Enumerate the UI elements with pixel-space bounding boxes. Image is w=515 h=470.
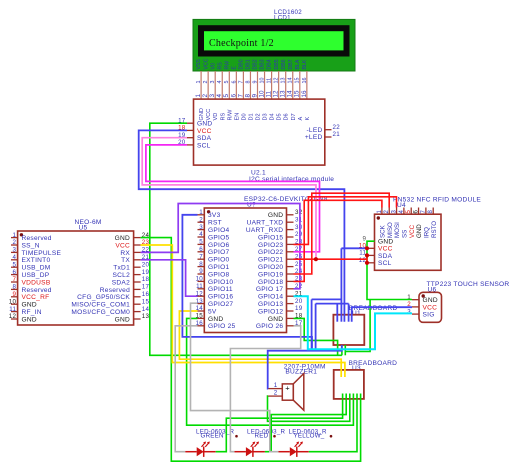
- svg-text:GND: GND: [22, 302, 37, 309]
- svg-text:DB1: DB1: [246, 59, 252, 69]
- svg-text:SS: SS: [401, 230, 408, 238]
- svg-text:VCC_RF: VCC_RF: [22, 294, 50, 301]
- svg-text:8: 8: [12, 284, 16, 291]
- svg-text:EXTINT0: EXTINT0: [22, 257, 51, 264]
- svg-text:GPIO11: GPIO11: [208, 286, 233, 293]
- svg-text:DB5: DB5: [274, 59, 280, 69]
- svg-text:GPIO13: GPIO13: [258, 301, 283, 308]
- svg-text:GPIO8: GPIO8: [208, 271, 229, 278]
- svg-text:14: 14: [287, 90, 294, 98]
- svg-text:SCL: SCL: [197, 142, 211, 149]
- svg-text:5: 5: [199, 239, 203, 246]
- svg-text:8: 8: [245, 81, 251, 84]
- svg-text:4: 4: [217, 81, 223, 84]
- svg-text:11: 11: [266, 90, 273, 97]
- svg-text:1: 1: [195, 94, 202, 98]
- svg-text:GND: GND: [197, 121, 212, 128]
- svg-text:5: 5: [223, 94, 230, 98]
- svg-text:6: 6: [230, 94, 237, 98]
- svg-text:7: 7: [199, 253, 203, 260]
- svg-text:DB7: DB7: [288, 59, 294, 69]
- svg-text:D0: D0: [241, 113, 247, 120]
- svg-text:7: 7: [12, 276, 16, 283]
- svg-text:CFG_GP50/SCK: CFG_GP50/SCK: [77, 294, 130, 301]
- svg-text:13: 13: [280, 90, 287, 98]
- svg-text:GPIO12: GPIO12: [258, 308, 283, 315]
- svg-text:DB2: DB2: [253, 59, 259, 69]
- svg-text:20: 20: [142, 261, 150, 268]
- svg-text:MISO/CFG_COM1: MISO/CFG_COM1: [71, 302, 130, 309]
- svg-text:GPIO 26: GPIO 26: [256, 323, 283, 330]
- svg-text:30: 30: [295, 224, 303, 231]
- svg-text:GND: GND: [268, 212, 283, 219]
- svg-text:18: 18: [142, 276, 150, 283]
- svg-text:15: 15: [142, 298, 150, 305]
- svg-text:10: 10: [9, 298, 17, 305]
- svg-text:VDDUSB: VDDUSB: [22, 279, 51, 286]
- svg-text:GPIO19: GPIO19: [258, 271, 283, 278]
- svg-text:1: 1: [12, 232, 16, 239]
- svg-text:GPIO7: GPIO7: [208, 249, 229, 256]
- svg-text:9: 9: [199, 268, 203, 275]
- svg-text:1: 1: [196, 81, 202, 84]
- svg-text:RSTO: RSTO: [431, 221, 438, 238]
- svg-text:GND: GND: [378, 239, 393, 246]
- svg-text:TIMEPULSE: TIMEPULSE: [22, 250, 62, 257]
- svg-text:12: 12: [273, 90, 280, 98]
- svg-text:TxD1: TxD1: [113, 265, 130, 272]
- svg-text:6: 6: [199, 246, 203, 253]
- svg-text:GPIO23: GPIO23: [258, 242, 283, 249]
- svg-text:USB_DP: USB_DP: [22, 272, 50, 279]
- svg-text:GPIO22: GPIO22: [258, 249, 283, 256]
- svg-text:4: 4: [199, 231, 203, 238]
- svg-text:Reserved: Reserved: [22, 235, 52, 242]
- svg-text:19: 19: [295, 305, 303, 312]
- svg-text:20: 20: [295, 298, 303, 305]
- svg-text:U4: U4: [397, 202, 406, 209]
- svg-text:D4: D4: [270, 113, 276, 120]
- svg-text:+: +: [285, 383, 290, 392]
- svg-text:GPIO 17: GPIO 17: [256, 286, 283, 293]
- svg-text:Checkpoint 1/2: Checkpoint 1/2: [209, 38, 274, 49]
- svg-text:VCC: VCC: [206, 109, 212, 121]
- svg-text:SS_N: SS_N: [22, 242, 40, 249]
- svg-text:RS: RS: [217, 62, 223, 70]
- svg-text:17: 17: [142, 284, 150, 291]
- svg-text:31: 31: [295, 216, 303, 223]
- svg-text:19: 19: [142, 269, 150, 276]
- svg-text:GND: GND: [423, 297, 438, 304]
- svg-text:IRQ: IRQ: [423, 227, 430, 238]
- svg-text:5: 5: [12, 261, 16, 268]
- svg-text:D3: D3: [263, 113, 269, 120]
- svg-text:GPIO15: GPIO15: [258, 234, 283, 241]
- svg-text:RW: RW: [224, 61, 230, 70]
- svg-text:9: 9: [12, 291, 16, 298]
- svg-text:U1: U1: [352, 310, 361, 317]
- svg-text:12: 12: [9, 313, 17, 320]
- svg-text:D1: D1: [248, 113, 254, 120]
- svg-text:GPIO21: GPIO21: [258, 257, 283, 264]
- svg-text:MISO: MISO: [387, 222, 394, 238]
- svg-text:DB6: DB6: [281, 59, 287, 69]
- svg-text:5V: 5V: [208, 308, 217, 315]
- svg-text:10: 10: [258, 90, 265, 98]
- svg-text:GPIO4: GPIO4: [208, 227, 229, 234]
- svg-text:K: K: [305, 117, 311, 121]
- svg-text:VCC: VCC: [378, 246, 393, 253]
- svg-text:D7: D7: [291, 113, 297, 120]
- svg-text:4: 4: [216, 94, 223, 98]
- svg-text:VCC: VCC: [197, 128, 212, 135]
- svg-text:3: 3: [210, 81, 216, 84]
- svg-text:GPIO 25: GPIO 25: [208, 323, 235, 330]
- svg-text:1: 1: [199, 209, 203, 216]
- svg-text:16: 16: [301, 90, 308, 98]
- svg-text:+LED: +LED: [305, 134, 323, 141]
- svg-text:14: 14: [288, 78, 294, 84]
- svg-text:SDA2: SDA2: [112, 279, 130, 286]
- svg-text:VD: VD: [213, 113, 219, 121]
- svg-text:BLK: BLK: [302, 59, 308, 69]
- svg-text:6: 6: [12, 269, 16, 276]
- svg-text:4: 4: [12, 254, 16, 261]
- svg-text:3: 3: [199, 224, 203, 231]
- svg-text:15: 15: [294, 90, 301, 98]
- svg-text:SDA: SDA: [197, 135, 212, 142]
- svg-text:29: 29: [295, 231, 303, 238]
- svg-text:12: 12: [274, 78, 280, 84]
- svg-text:GND: GND: [199, 108, 205, 120]
- svg-text:10: 10: [196, 276, 204, 283]
- svg-text:DB3: DB3: [260, 59, 266, 69]
- svg-text:D5: D5: [277, 113, 283, 120]
- svg-text:GPIO10: GPIO10: [208, 279, 233, 286]
- svg-text:SCK: SCK: [380, 224, 387, 238]
- svg-text:SCL2: SCL2: [113, 272, 131, 279]
- svg-text:11: 11: [9, 306, 16, 313]
- svg-text:BUZZER1: BUZZER1: [285, 368, 317, 375]
- svg-text:9: 9: [251, 94, 258, 98]
- svg-text:7: 7: [238, 81, 244, 84]
- svg-text:11: 11: [267, 78, 273, 84]
- svg-text:VSS: VSS: [196, 59, 202, 70]
- svg-text:MOSI/CFG_COM0: MOSI/CFG_COM0: [71, 309, 130, 316]
- svg-text:USB_DM: USB_DM: [22, 265, 51, 272]
- svg-text:GPIO0: GPIO0: [208, 257, 229, 264]
- svg-text:GND: GND: [22, 316, 37, 323]
- svg-text:PN532 NFC RFID MODULE: PN532 NFC RFID MODULE: [393, 197, 481, 204]
- svg-text:SDA: SDA: [378, 253, 393, 260]
- svg-text:16: 16: [302, 78, 308, 84]
- svg-text:GND: GND: [115, 235, 130, 242]
- svg-text:GND: GND: [416, 224, 423, 238]
- svg-text:Reserved: Reserved: [22, 287, 52, 294]
- svg-text:RST: RST: [208, 220, 222, 227]
- svg-text:7: 7: [237, 94, 244, 98]
- svg-text:2: 2: [199, 216, 203, 223]
- svg-text:GND: GND: [208, 316, 223, 323]
- svg-text:R/W: R/W: [227, 109, 233, 121]
- svg-text:2: 2: [12, 239, 16, 246]
- svg-text:TTP223 TOUCH SENSOR: TTP223 TOUCH SENSOR: [427, 281, 510, 288]
- svg-text:22: 22: [333, 124, 341, 131]
- svg-text:2: 2: [203, 81, 209, 84]
- svg-text:32: 32: [295, 209, 303, 216]
- svg-text:16: 16: [142, 291, 150, 298]
- svg-text:GND: GND: [115, 316, 130, 323]
- svg-text:GPIO18: GPIO18: [258, 279, 283, 286]
- svg-text:MOSI: MOSI: [394, 222, 401, 238]
- svg-text:13: 13: [142, 313, 150, 320]
- svg-text:VCC: VCC: [409, 224, 416, 238]
- svg-text:UART_RXD: UART_RXD: [246, 227, 283, 234]
- svg-text:8: 8: [244, 94, 251, 98]
- svg-text:GND: GND: [268, 316, 283, 323]
- svg-text:EN: EN: [234, 113, 240, 121]
- svg-text:DB4: DB4: [267, 59, 273, 69]
- svg-text:GPIO6: GPIO6: [208, 242, 229, 249]
- svg-text:14: 14: [142, 306, 150, 313]
- svg-text:9: 9: [252, 81, 258, 84]
- svg-text:2: 2: [274, 390, 278, 397]
- svg-text:-LED: -LED: [306, 127, 322, 134]
- svg-text:TX: TX: [121, 257, 130, 264]
- svg-text:GPIO5: GPIO5: [208, 234, 229, 241]
- svg-text:UART_TXD: UART_TXD: [247, 220, 284, 227]
- svg-text:RS: RS: [220, 112, 226, 120]
- svg-text:6: 6: [231, 81, 237, 84]
- svg-text:Reserved: Reserved: [100, 287, 130, 294]
- svg-text:YELLOW_: YELLOW_: [294, 433, 325, 440]
- svg-text:GPIO1: GPIO1: [208, 264, 229, 271]
- svg-text:10: 10: [259, 78, 265, 84]
- svg-text:VCC: VCC: [423, 304, 438, 311]
- svg-text:SIG: SIG: [423, 312, 435, 319]
- svg-text:BLA: BLA: [295, 59, 301, 69]
- svg-text:GPIO27: GPIO27: [208, 301, 233, 308]
- svg-text:5: 5: [224, 81, 230, 84]
- svg-text:3: 3: [12, 247, 16, 254]
- svg-text:9: 9: [362, 235, 366, 242]
- svg-text:25: 25: [295, 261, 303, 268]
- svg-text:SCL: SCL: [378, 260, 392, 267]
- svg-text:15: 15: [295, 78, 301, 84]
- svg-text:3: 3: [209, 94, 216, 98]
- svg-text:GREEN: GREEN: [201, 433, 224, 440]
- svg-text:11: 11: [196, 283, 203, 290]
- svg-text:RED: RED: [255, 433, 269, 440]
- svg-text:8: 8: [199, 261, 203, 268]
- svg-text:1: 1: [274, 382, 278, 389]
- svg-text:A: A: [298, 117, 304, 121]
- svg-text:RF_IN: RF_IN: [22, 309, 42, 316]
- svg-text:GPIO20: GPIO20: [258, 264, 283, 271]
- svg-text:D6: D6: [284, 113, 290, 120]
- svg-text:GPIO16: GPIO16: [208, 294, 233, 301]
- svg-text:D2: D2: [256, 113, 262, 120]
- svg-text:13: 13: [281, 78, 287, 84]
- svg-text:V0: V0: [210, 63, 216, 69]
- svg-text:GPIO14: GPIO14: [258, 294, 283, 301]
- svg-text:2: 2: [202, 94, 209, 98]
- svg-text:VCC: VCC: [203, 58, 209, 69]
- svg-text:21: 21: [333, 131, 341, 138]
- svg-text:RX: RX: [120, 250, 130, 257]
- svg-text:E: E: [231, 66, 237, 70]
- svg-text:DB0: DB0: [239, 59, 245, 69]
- svg-text:VCC: VCC: [115, 242, 130, 249]
- svg-text:3V3: 3V3: [208, 212, 221, 219]
